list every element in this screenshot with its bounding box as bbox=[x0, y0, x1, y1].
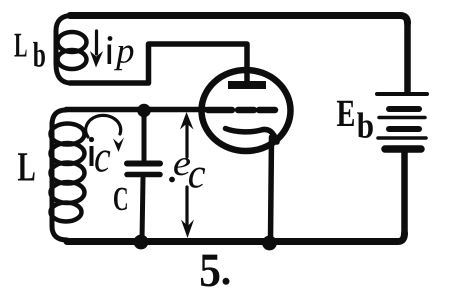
wire bottom rail bbox=[67, 233, 405, 242]
label ip bbox=[108, 36, 134, 70]
plate (anode) bar bbox=[228, 81, 266, 89]
wire plate feed (Lb bottom to plate) bbox=[70, 44, 247, 83]
label Lb bbox=[14, 34, 45, 67]
label ic bbox=[89, 137, 110, 172]
battery Eb bbox=[377, 94, 427, 149]
node cathode/bottom-rail junction bbox=[262, 236, 277, 251]
node grid/tank junction bbox=[137, 104, 151, 118]
grid (dashed bar) bbox=[208, 107, 275, 114]
wire battery top lead bbox=[404, 22, 411, 91]
triode V1 envelope bbox=[202, 70, 291, 151]
arrow ec (grid voltage, double-headed) bbox=[180, 112, 194, 238]
arrow ip (plate current) bbox=[90, 31, 103, 68]
label Eb bbox=[337, 101, 373, 138]
node tank bottom junction bbox=[134, 235, 149, 250]
label figure number 5. bbox=[201, 255, 230, 287]
inductor L bbox=[51, 110, 85, 240]
inductor Lb bbox=[56, 16, 87, 84]
label C bbox=[114, 188, 127, 211]
wire battery bottom lead bbox=[401, 152, 408, 234]
label L bbox=[18, 153, 35, 180]
arrow ic (circulating current) bbox=[86, 115, 124, 152]
wire cathode lead bbox=[271, 137, 272, 239]
label ec bbox=[169, 158, 205, 188]
wire top rail bbox=[70, 16, 408, 24]
wire tank top (grid lead) bbox=[66, 107, 206, 112]
cathode filament bbox=[226, 129, 278, 143]
capacitor C bbox=[127, 110, 160, 240]
